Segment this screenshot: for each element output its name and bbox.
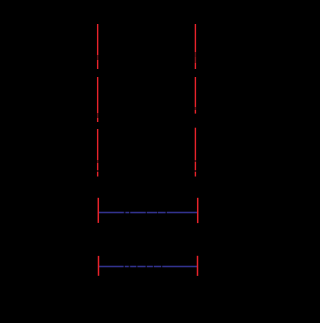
red left cap of upper interval	[97, 198, 99, 223]
red left cap of lower interval	[98, 256, 100, 276]
left red dashed vertical line	[97, 24, 99, 177]
red right cap of lower interval	[197, 256, 199, 276]
blue horizontal line 2 (lower interval)	[99, 266, 198, 268]
blue horizontal line 1 (upper interval)	[98, 212, 197, 214]
red right cap of upper interval	[197, 198, 199, 223]
right red dashed vertical line	[194, 24, 196, 177]
